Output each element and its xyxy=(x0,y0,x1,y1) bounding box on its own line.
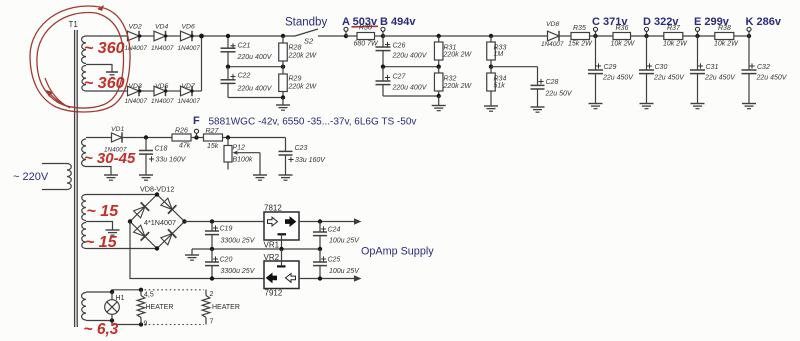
svg-text:C31: C31 xyxy=(706,64,719,71)
svg-text:R27: R27 xyxy=(206,128,220,135)
svg-text:220k 2W: 220k 2W xyxy=(443,83,473,90)
svg-text:5881WGC -42v, 6550 -35...-37v: 5881WGC -42v, 6550 -35...-37v, 6L6G TS -… xyxy=(209,117,417,128)
svg-text:10k 2W: 10k 2W xyxy=(714,41,739,48)
svg-text:1N4007: 1N4007 xyxy=(541,41,564,48)
svg-text:C 371v: C 371v xyxy=(592,16,628,28)
svg-text:7: 7 xyxy=(210,319,214,326)
svg-text:C26: C26 xyxy=(393,43,406,50)
svg-text:220k 2W: 220k 2W xyxy=(443,52,473,59)
svg-text:~ 6,3: ~ 6,3 xyxy=(84,321,119,338)
svg-text:10k 2W: 10k 2W xyxy=(663,41,688,48)
svg-text:C25: C25 xyxy=(328,256,341,263)
svg-text:100u 25V: 100u 25V xyxy=(329,238,360,245)
svg-text:Standby: Standby xyxy=(285,16,327,28)
svg-text:C27: C27 xyxy=(393,74,407,81)
svg-text:22u 450V: 22u 450V xyxy=(602,75,634,82)
svg-text:R35: R35 xyxy=(573,25,586,32)
svg-text:1N4007: 1N4007 xyxy=(151,98,174,105)
svg-text:~ 15: ~ 15 xyxy=(85,234,118,251)
svg-text:15k 2W: 15k 2W xyxy=(568,41,593,48)
svg-text:C19: C19 xyxy=(220,226,233,233)
svg-text:T1: T1 xyxy=(69,20,79,29)
svg-text:3300u 25V: 3300u 25V xyxy=(221,237,256,244)
svg-text:R31: R31 xyxy=(444,45,457,52)
svg-text:51k: 51k xyxy=(494,83,506,90)
svg-text:C24: C24 xyxy=(328,226,341,233)
svg-text:C20: C20 xyxy=(220,256,233,263)
svg-text:100u 25V: 100u 25V xyxy=(329,268,360,275)
svg-text:9: 9 xyxy=(144,320,148,327)
svg-text:2: 2 xyxy=(210,291,214,298)
svg-text:H1: H1 xyxy=(116,295,125,302)
svg-text:4,5: 4,5 xyxy=(144,292,154,299)
svg-text:~ 360: ~ 360 xyxy=(84,40,125,57)
svg-text:1M: 1M xyxy=(494,51,504,58)
svg-text:D 322v: D 322v xyxy=(643,16,679,28)
svg-text:3300u 25V: 3300u 25V xyxy=(221,268,256,275)
svg-text:K 286v: K 286v xyxy=(746,16,782,28)
svg-text:220u 400V: 220u 400V xyxy=(237,54,273,61)
svg-text:C21: C21 xyxy=(238,43,251,50)
svg-text:P12: P12 xyxy=(233,145,246,152)
svg-text:R30: R30 xyxy=(359,25,372,32)
svg-text:1N4007: 1N4007 xyxy=(151,45,174,52)
svg-text:220u 400V: 220u 400V xyxy=(237,86,273,93)
svg-text:~ 30-45: ~ 30-45 xyxy=(84,150,136,167)
svg-text:VD6: VD6 xyxy=(182,24,195,31)
svg-text:4*1N4007: 4*1N4007 xyxy=(144,218,176,227)
svg-text:C18: C18 xyxy=(155,146,168,153)
svg-text:C32: C32 xyxy=(757,64,770,71)
svg-text:VD1: VD1 xyxy=(111,126,124,133)
svg-text:B100k: B100k xyxy=(233,157,253,164)
svg-text:VD8-VD12: VD8-VD12 xyxy=(140,185,174,194)
svg-text:220u 400V: 220u 400V xyxy=(392,85,428,92)
svg-text:1N4007: 1N4007 xyxy=(125,45,148,52)
svg-text:22u 450V: 22u 450V xyxy=(756,75,788,82)
svg-text:OpAmp Supply: OpAmp Supply xyxy=(361,246,434,258)
svg-text:33u 160V: 33u 160V xyxy=(295,157,326,164)
svg-text:R26: R26 xyxy=(175,128,188,135)
svg-text:R29: R29 xyxy=(289,76,302,83)
svg-text:S2: S2 xyxy=(304,37,314,46)
svg-text:220k 2W: 220k 2W xyxy=(288,84,318,91)
svg-text:C29: C29 xyxy=(604,64,617,71)
svg-text:1N4007: 1N4007 xyxy=(178,45,201,52)
svg-text:R32: R32 xyxy=(444,76,457,83)
svg-text:C23: C23 xyxy=(295,145,308,152)
svg-text:~ 220V: ~ 220V xyxy=(13,171,49,183)
svg-text:HEATER: HEATER xyxy=(212,304,240,311)
svg-text:R28: R28 xyxy=(289,45,302,52)
svg-text:~ 15: ~ 15 xyxy=(87,203,120,220)
svg-text:B 494v: B 494v xyxy=(380,16,416,28)
svg-text:7812: 7812 xyxy=(264,204,282,213)
svg-text:F: F xyxy=(193,115,200,127)
svg-text:C30: C30 xyxy=(655,64,668,71)
svg-text:680 7W: 680 7W xyxy=(354,41,380,48)
svg-text:VD8: VD8 xyxy=(546,21,559,28)
svg-text:R34: R34 xyxy=(494,76,507,83)
svg-text:15k: 15k xyxy=(207,143,219,150)
svg-text:22u 50V: 22u 50V xyxy=(545,91,573,98)
svg-text:VD7: VD7 xyxy=(182,83,195,90)
svg-text:1N4007: 1N4007 xyxy=(178,98,201,105)
svg-text:C22: C22 xyxy=(238,73,251,80)
svg-text:22u 450V: 22u 450V xyxy=(653,75,685,82)
svg-text:VR1: VR1 xyxy=(264,241,280,250)
svg-text:VD2: VD2 xyxy=(129,24,142,31)
svg-text:HEATER: HEATER xyxy=(146,304,174,311)
svg-text:220k 2W: 220k 2W xyxy=(288,53,318,60)
svg-text:10k 2W: 10k 2W xyxy=(611,41,636,48)
svg-text:22u 450V: 22u 450V xyxy=(704,75,736,82)
svg-text:1N4007: 1N4007 xyxy=(125,98,148,105)
svg-text:VD3: VD3 xyxy=(129,83,142,90)
svg-text:47k: 47k xyxy=(179,143,191,150)
svg-text:VD5: VD5 xyxy=(155,83,168,90)
svg-text:33u 160V: 33u 160V xyxy=(156,157,187,164)
svg-text:220u 400V: 220u 400V xyxy=(392,53,428,60)
svg-text:VD4: VD4 xyxy=(155,24,168,31)
svg-text:7912: 7912 xyxy=(265,289,283,298)
svg-text:C28: C28 xyxy=(546,79,559,86)
svg-text:E 299v: E 299v xyxy=(694,16,730,28)
